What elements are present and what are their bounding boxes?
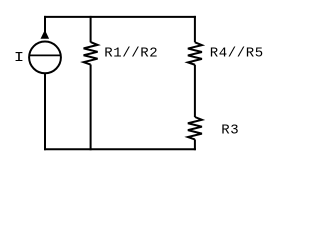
svg-text:R4//R5: R4//R5 (210, 46, 264, 62)
wire right branch upper (194, 16, 196, 42)
wire left branch lower (44, 74, 46, 151)
wire right branch middle (194, 65, 196, 117)
wire top (44, 16, 196, 18)
current source I arrowhead (41, 30, 50, 39)
current source I body (29, 42, 61, 74)
wire middle branch upper (90, 16, 92, 42)
resistor R3 (188, 117, 202, 139)
svg-text:R1//R2: R1//R2 (104, 46, 158, 62)
wire bottom (44, 148, 196, 150)
wire right branch lower (194, 139, 196, 150)
svg-text:I: I (14, 49, 25, 65)
svg-text:R3: R3 (221, 123, 239, 139)
wire left branch upper (44, 16, 46, 36)
resistor R1//R2 (84, 42, 98, 64)
wire middle branch lower (90, 65, 92, 151)
current source I bar (29, 54, 61, 56)
resistor R4//R5 (188, 42, 202, 64)
